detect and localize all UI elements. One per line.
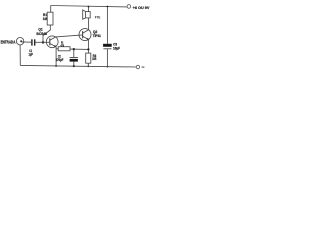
wire speaker top to rail: [88, 7, 90, 12]
svg-text:470µF: 470µF: [56, 58, 63, 62]
svg-text:TIP31: TIP31: [93, 34, 101, 38]
svg-text:10R: 10R: [92, 57, 96, 61]
transistor Q1: [46, 36, 58, 48]
svg-text:16µF: 16µF: [113, 46, 120, 50]
node C3 at bottom rail: [107, 66, 109, 68]
label negative dash: [142, 66, 145, 68]
wire R1 top lead: [50, 6, 52, 13]
capacitor C2: [70, 57, 78, 59]
terminal battery negative: [136, 65, 139, 68]
speaker FTE: [86, 12, 91, 18]
wire Q2 collector up to speaker: [88, 18, 90, 30]
wire C2 bottom lead: [73, 62, 75, 67]
wire bottom rail ground: [20, 65, 136, 67]
wire Q1 emitter down to ground rail: [55, 47, 57, 66]
svg-text:470: 470: [61, 43, 65, 47]
wire R3 bottom lead: [87, 63, 89, 66]
resistor R2: [58, 47, 70, 51]
node R2/C2 junction: [73, 48, 75, 50]
wire R2 to emitter node of Q2: [70, 48, 88, 50]
node R3 at rail: [87, 66, 89, 68]
resistor R1: [47, 12, 53, 25]
node C3 at top rail: [107, 6, 109, 8]
capacitor C1: [31, 39, 33, 45]
svg-text:1M: 1M: [43, 17, 48, 21]
wire C1 to Q1 base: [35, 41, 50, 43]
wire Q2 emitter down: [87, 40, 89, 54]
node base junction: [42, 41, 45, 44]
wire Q1 collector to Q2 base: [56, 35, 79, 37]
wire jack ground down: [19, 45, 21, 66]
wire Q1 emitter to R2: [56, 48, 58, 50]
wire top rail V+: [51, 6, 128, 7]
wire C2 top lead: [73, 49, 75, 57]
node speaker at rail: [88, 6, 90, 8]
node Q2 emitter junction: [87, 48, 89, 50]
connector J1 input jack: [16, 38, 23, 45]
svg-text:BC548: BC548: [36, 32, 47, 36]
wire C3 top lead from rail: [106, 7, 108, 44]
wire C3 bottom lead: [106, 49, 108, 66]
svg-text:1µF: 1µF: [29, 53, 34, 57]
wire R1 bottom lead to base node: [43, 25, 50, 42]
wire jack pin to C1: [21, 41, 31, 43]
capacitor C3: [103, 44, 112, 47]
svg-text:Q1: Q1: [38, 27, 42, 31]
wire Q2 base lead: [79, 34, 83, 36]
terminal battery positive: [127, 5, 131, 9]
svg-text:+6 OU 9V: +6 OU 9V: [133, 6, 150, 10]
svg-text:ENTRADA: ENTRADA: [1, 39, 16, 44]
node Q1 emitter at rail: [55, 65, 57, 67]
svg-text:FTE: FTE: [95, 16, 101, 20]
transistor Q2: [79, 29, 91, 41]
node C2 at rail: [73, 65, 75, 67]
resistor R3: [86, 53, 91, 63]
